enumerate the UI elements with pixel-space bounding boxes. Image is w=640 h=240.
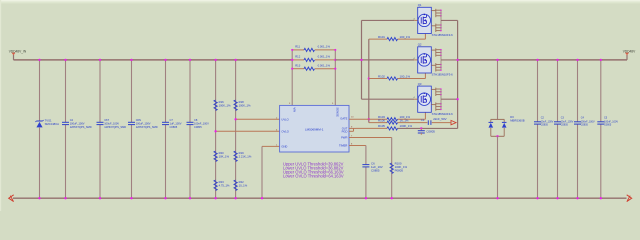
svg-text:SENSE: SENSE [336,107,340,117]
svg-text:R106: R106 [378,119,385,123]
svg-text:10K_1%: 10K_1% [219,155,230,159]
svg-text:100_1%: 100_1% [400,75,411,79]
svg-text:Lower OVLO Threshold=64.163V: Lower OVLO Threshold=64.163V [283,174,344,179]
svg-text:C0805: C0805 [541,124,549,127]
svg-text:R22: R22 [239,180,245,184]
svg-text:R23: R23 [219,180,225,184]
svg-text:R19: R19 [239,151,245,155]
svg-text:C0805: C0805 [561,124,569,127]
svg-text:100K_1%: 100K_1% [400,124,413,128]
svg-text:VDD48V: VDD48V [623,49,636,53]
svg-text:C0805: C0805 [170,125,178,129]
svg-text:VDD48V_IN: VDD48V_IN [9,49,27,53]
svg-text:C0805: C0805 [604,124,612,127]
svg-text:GATE: GATE [340,117,347,121]
svg-text:GND: GND [281,145,287,149]
svg-text:OVLO: OVLO [281,130,288,134]
svg-text:0.001_1%: 0.001_1% [318,64,331,68]
svg-text:R101: R101 [378,35,385,39]
svg-text:100K_1%: 100K_1% [239,104,251,108]
svg-text:P0805: P0805 [395,168,404,172]
svg-text:PWR: PWR [341,136,347,140]
svg-text:Q1: Q1 [418,3,422,7]
svg-text:TIMER: TIMER [339,144,347,148]
svg-text:R105: R105 [378,124,385,128]
svg-text:R20: R20 [219,151,225,155]
svg-text:12P6X7QPS_SMD: 12P6X7QPS_SMD [136,125,158,129]
svg-text:12P6X7QPS_SMD: 12P6X7QPS_SMD [104,125,126,129]
svg-text:100K_1%: 100K_1% [219,104,231,108]
svg-text:STH185N10F3-6: STH185N10F3-6 [432,112,454,116]
svg-text:UVLO: UVLO [281,118,288,122]
svg-text:C0805: C0805 [371,168,380,172]
svg-text:100_1%: 100_1% [400,35,411,39]
svg-text:C0805: C0805 [194,125,202,129]
svg-text:VIN: VIN [292,107,296,112]
svg-text:0.001_1%: 0.001_1% [318,55,331,59]
svg-text:STH185N10F3-6: STH185N10F3-6 [432,33,454,37]
svg-text:16_1%: 16_1% [400,119,409,123]
svg-text:2.21K_1%: 2.21K_1% [239,155,252,159]
svg-text:R102: R102 [378,75,385,79]
svg-text:10_1%: 10_1% [239,184,248,188]
svg-text:STH185N10F3-6: STH185N10F3-6 [432,73,454,77]
svg-text:LM5069MM-1: LM5069MM-1 [305,127,324,131]
svg-text:MBRS360B: MBRS360B [510,118,525,122]
svg-text:PGD: PGD [342,130,348,134]
svg-text:R12: R12 [295,55,301,59]
svg-text:12P6X7QPS_SMD: 12P6X7QPS_SMD [70,125,92,129]
svg-text:C1: C1 [421,118,425,122]
svg-text:Q2: Q2 [418,43,422,47]
svg-text:OUT: OUT [342,126,348,130]
svg-text:C0805: C0805 [581,124,589,127]
svg-text:0.001_1%: 0.001_1% [318,45,331,49]
svg-text:R16: R16 [219,100,225,104]
svg-text:C0805: C0805 [426,130,435,134]
svg-text:22nF_50V: 22nF_50V [433,117,446,121]
svg-text:R11: R11 [295,45,300,49]
svg-text:Q3: Q3 [418,82,422,86]
svg-text:SMCJ48CA: SMCJ48CA [45,122,60,126]
svg-text:4.75_1%: 4.75_1% [219,184,230,188]
svg-text:R18: R18 [239,100,245,104]
svg-text:R13: R13 [295,64,301,68]
